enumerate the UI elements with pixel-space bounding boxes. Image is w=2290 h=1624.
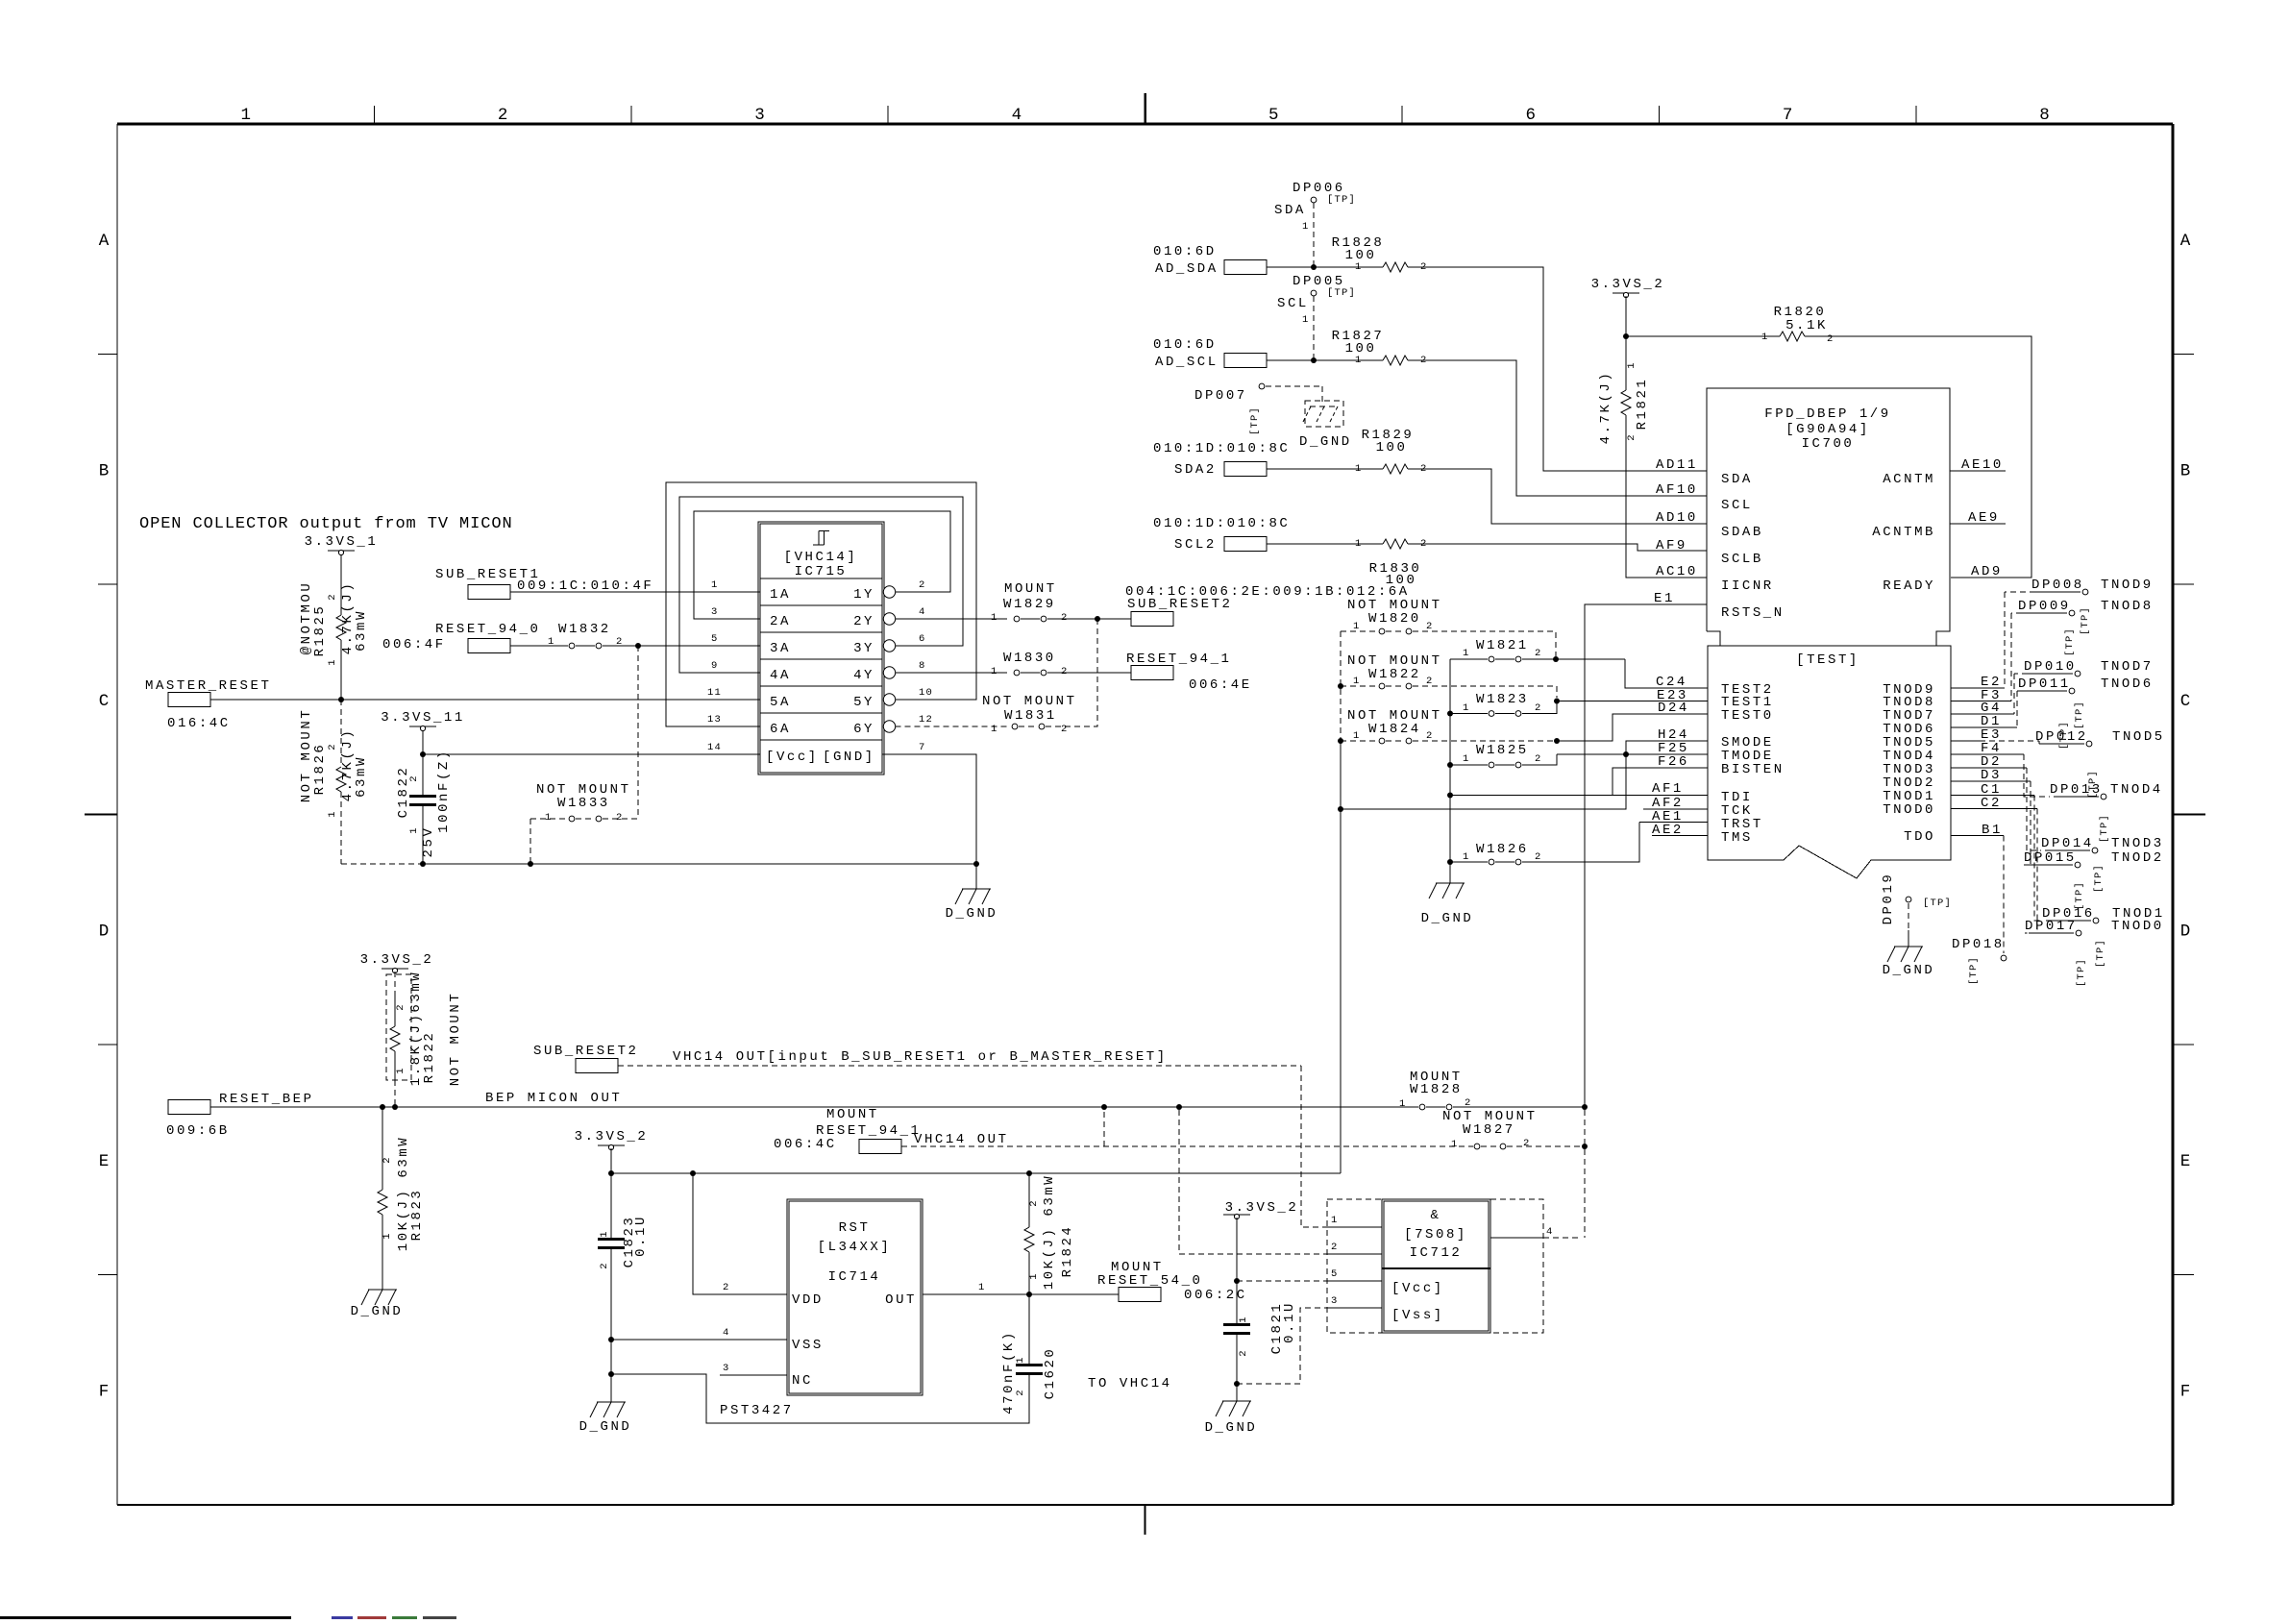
svg-text:TO VHC14: TO VHC14 [1088,1376,1172,1391]
pin stubs IC712 [1327,1226,1382,1228]
svg-text:2: 2 [1626,433,1637,441]
svg-text:FPD_DBEP 1/9: FPD_DBEP 1/9 [1764,406,1890,422]
svg-text:E: E [99,1152,110,1171]
svg-text:[TP]: [TP] [2074,881,2085,910]
svg-text:AD9: AD9 [1971,564,2003,579]
svg-text:W1830: W1830 [1003,651,1056,666]
wire RSTS dashed links [1584,1110,1586,1144]
svg-text:D_GND: D_GND [351,1304,404,1319]
svg-text:8: 8 [919,660,926,672]
svg-text:[Vcc]: [Vcc] [766,750,819,765]
power 3.3VS_2 right [1223,1214,1250,1216]
svg-text:1: 1 [1463,753,1470,765]
svg-text:3: 3 [723,1363,730,1374]
junction RSTS node [1582,1104,1588,1110]
wire W1832 to 3A [603,645,760,647]
junction AD_SDA/DP006 [1311,264,1317,270]
svg-text:MASTER_RESET: MASTER_RESET [145,678,271,694]
svg-text:W1824: W1824 [1368,722,1421,737]
junction gnd node [973,861,979,867]
svg-text:B: B [99,461,110,480]
wire TDI pin AF1 to ground bus [1450,795,1708,797]
ground D_GND jumper bus [1436,882,1465,884]
junction SMODE/TMODE node [1623,751,1629,757]
wire TMODE pin F25 [1557,753,1708,755]
svg-text:RESET_BEP: RESET_BEP [219,1092,314,1107]
svg-text:1: 1 [1463,702,1470,714]
wire SCL2 [1267,543,1383,545]
svg-text:6: 6 [1525,106,1536,125]
wire OUT to RESET_54_0 [923,1293,1119,1295]
svg-text:[L34XX]: [L34XX] [818,1240,892,1255]
svg-text:4.7K(J): 4.7K(J) [1598,371,1613,445]
wire DP013 to F4 [2024,754,2050,797]
svg-text:5: 5 [1331,1268,1339,1280]
feedback loop 3Y to 4A [679,497,963,673]
svg-text:TNOD5: TNOD5 [2112,729,2165,745]
wire TEST1 pin E23 [1557,701,1708,702]
junction C1822 bottom [420,861,426,867]
svg-text:ACNTM: ACNTM [1883,472,1935,487]
svg-text:10: 10 [919,687,933,699]
svg-text:1: 1 [1355,355,1363,366]
svg-text:5: 5 [1268,106,1279,125]
svg-text:VHC14 OUT[input B_SUB_RESET1 o: VHC14 OUT[input B_SUB_RESET1 or B_MASTER… [673,1049,1168,1065]
inverter output bubbles [883,586,895,598]
svg-text:TNOD3: TNOD3 [2111,836,2164,851]
wire 4Y to RESET_94_1 [896,672,1007,674]
svg-text:4: 4 [723,1327,730,1339]
svg-text:DP014: DP014 [2041,836,2094,851]
wire R1820 to READY/AD9 [1805,336,2031,578]
svg-text:R1822: R1822 [422,1031,437,1084]
capacitor C1823 0.1U [610,1173,612,1238]
svg-text:NC: NC [792,1373,813,1389]
svg-text:010:6D: 010:6D [1153,244,1217,259]
svg-text:100nF(Z): 100nF(Z) [436,749,452,833]
svg-text:C: C [2180,692,2191,711]
wire R1827 to IC700 SCL [1408,360,1707,496]
wire IC712 input2 dashed [1179,1110,1327,1254]
svg-text:5: 5 [711,633,719,645]
wire to D_GND right [1236,1384,1238,1401]
wire DP010 to G4 [2013,674,2015,714]
svg-text:2: 2 [1535,702,1542,714]
junction W1832/W1833 [635,643,641,649]
capacitor C1821 0.1U [1236,1281,1238,1323]
svg-text:DP017: DP017 [2025,919,2078,934]
svg-text:2: 2 [1061,612,1069,624]
svg-text:2: 2 [1426,676,1434,687]
junction W1821 output [1553,656,1559,662]
svg-text:2: 2 [1535,851,1542,863]
junction R1820/R1821 [1623,333,1629,339]
svg-text:3.3VS_2: 3.3VS_2 [575,1129,649,1144]
svg-text:006:2C: 006:2C [1184,1288,1247,1303]
svg-text:3A: 3A [770,641,791,656]
svg-text:E: E [2180,1152,2191,1171]
svg-text:&: & [1431,1208,1441,1223]
svg-text:3.3VS_2: 3.3VS_2 [1225,1200,1299,1216]
svg-text:MOUNT: MOUNT [1004,581,1057,597]
3.3V bus solid section down to supply rail [1340,741,1342,1173]
ground D_GND IC712 [1222,1400,1251,1402]
svg-text:DP009: DP009 [2018,599,2071,614]
svg-text:TNOD0: TNOD0 [2111,919,2164,934]
svg-text:AF1: AF1 [1652,781,1684,797]
svg-text:[TP]: [TP] [2080,606,2091,635]
svg-text:SUB_RESET2: SUB_RESET2 [1127,597,1233,612]
svg-text:SDAB: SDAB [1721,525,1763,540]
svg-text:RESET_54_0: RESET_54_0 [1097,1273,1203,1289]
svg-text:[GND]: [GND] [823,750,875,765]
svg-text:VSS: VSS [792,1338,824,1353]
junction IC712 in2 tap [1176,1104,1182,1110]
power 3.3VS_1 [328,550,355,552]
svg-text:IC712: IC712 [1410,1245,1463,1261]
svg-text:12: 12 [919,714,933,726]
bottom center tick [1145,1505,1146,1535]
wire DP014 to D2 [2027,768,2041,850]
svg-text:2: 2 [327,593,338,601]
svg-text:D_GND: D_GND [1883,963,1935,978]
svg-text:2: 2 [1523,1138,1531,1149]
junction AD_SCL/DP005 [1311,357,1317,363]
svg-text:2: 2 [327,743,338,750]
svg-text:[TP]: [TP] [1327,194,1356,206]
wire R1830 to IC700 SCLB [1408,544,1707,551]
svg-text:BISTEN: BISTEN [1721,762,1785,777]
junction W1824/W1825 to TEST0 [1554,738,1560,744]
svg-text:C1822: C1822 [396,766,411,819]
svg-text:R1825: R1825 [312,604,328,657]
svg-text:1: 1 [1353,676,1361,687]
junction 3.3V bus / TCK feed [1338,806,1343,812]
svg-text:AE9: AE9 [1968,510,2000,526]
svg-text:2: 2 [1238,1349,1249,1357]
svg-text:IC700: IC700 [1802,436,1855,452]
svg-text:016:4C: 016:4C [167,716,231,731]
resistor R1824 10K(J) [1028,1173,1030,1227]
wire DP016 to C1 [2034,796,2042,922]
svg-text:SDA: SDA [1274,203,1306,218]
svg-text:TDO: TDO [1904,829,1935,845]
wire TNOD4 pin F4 [1951,753,2024,755]
wire 3.3V supply rail [611,1172,1341,1174]
svg-text:2: 2 [723,1282,730,1293]
svg-text:10K(J) 63mW: 10K(J) 63mW [1042,1174,1057,1290]
svg-text:2Y: 2Y [853,614,874,629]
svg-text:TNOD7: TNOD7 [2101,659,2154,675]
junction C1822 top [420,751,426,757]
svg-text:1A: 1A [770,587,791,603]
wire TNOD6 pin D1 [1951,726,2017,728]
junction SUB_RESET2/W1831 [1095,616,1100,622]
svg-text:SCL: SCL [1721,498,1753,513]
svg-text:W1833: W1833 [557,796,610,811]
svg-text:1: 1 [1353,621,1361,632]
svg-text:DP015: DP015 [2024,850,2077,866]
svg-text:DP011: DP011 [2018,677,2071,692]
svg-text:2: 2 [1426,621,1434,632]
junction C1821 top [1234,1278,1240,1284]
wire DP009 to F3 [2010,613,2012,701]
svg-text:[TP]: [TP] [2074,701,2085,729]
svg-text:[7S08]: [7S08] [1404,1227,1467,1243]
svg-text:0.1U: 0.1U [1282,1301,1297,1343]
svg-text:3.3VS_1: 3.3VS_1 [305,534,379,550]
svg-text:1: 1 [1355,261,1363,273]
svg-text:5Y: 5Y [853,695,874,710]
svg-text:SDA: SDA [1721,472,1753,487]
pin NC stub [720,1374,787,1376]
capacitor C1620 470nF [1028,1294,1030,1364]
svg-text:OPEN COLLECTOR output from TV: OPEN COLLECTOR output from TV MICON [139,515,513,533]
svg-text:READY: READY [1883,578,1935,594]
wire TMS pin AE2 [1652,835,1708,837]
svg-text:7: 7 [919,742,926,753]
power 3.3VS_2 mid [598,1144,625,1146]
wire TNOD2 pin D3 [1951,780,2031,782]
svg-text:AD11: AD11 [1656,457,1698,473]
svg-text:2: 2 [1535,648,1542,659]
capacitor C1822 100nF [422,754,424,795]
svg-text:R1824: R1824 [1060,1225,1075,1278]
svg-text:[TP]: [TP] [2076,958,2087,987]
svg-text:1: 1 [327,658,338,666]
wire SUB_RESET2 dashed to IC712 pin1 [618,1065,1301,1067]
svg-text:1: 1 [1302,221,1310,233]
svg-text:1Y: 1Y [853,587,874,603]
ground D_GND DP019 [1894,946,1923,947]
svg-text:3: 3 [754,106,765,125]
svg-text:1: 1 [1331,1215,1339,1226]
svg-text:A: A [99,232,110,251]
wire TEST0 pin D24 [1557,714,1708,741]
svg-text:TNOD9: TNOD9 [2101,578,2154,593]
svg-text:1: 1 [1355,538,1363,550]
svg-text:AF9: AF9 [1656,538,1687,554]
svg-text:ACNTMB: ACNTMB [1872,525,1935,540]
wire C1620 return path [611,1374,1029,1423]
wire DP011 to D1 [2016,691,2018,727]
resistor R1823 10K(J) [382,1107,383,1190]
svg-text:AF10: AF10 [1656,482,1698,498]
wire GND pin 7 [882,754,976,864]
svg-text:D: D [99,922,110,941]
svg-text:4Y: 4Y [853,668,874,683]
svg-text:[TP]: [TP] [1249,406,1261,435]
svg-text:6: 6 [919,633,926,645]
svg-text:1: 1 [382,1232,393,1240]
junction R1822 [392,1104,398,1110]
svg-text:1: 1 [1353,730,1361,742]
wire DP015 to D3 [2024,781,2031,865]
wire SUB_RESET1 to 1A [510,591,760,593]
svg-text:470nF(K): 470nF(K) [1001,1330,1017,1415]
svg-text:SCL2: SCL2 [1174,537,1217,553]
wire TNOD9 pin E2 [1951,687,2005,689]
wire 6Y dashed [896,726,1007,727]
junction NC bypass [608,1371,614,1377]
wire TNOD7 pin G4 [1951,713,2014,715]
svg-text:010:6D: 010:6D [1153,337,1217,353]
svg-text:2: 2 [616,812,624,824]
svg-text:BEP MICON OUT: BEP MICON OUT [485,1091,622,1106]
power 3.3VS_2 top [1613,292,1639,294]
svg-text:F26: F26 [1658,754,1689,770]
ground bus for jumpers [1449,659,1451,883]
svg-text:C1620: C1620 [1043,1347,1058,1400]
svg-text:1: 1 [1238,1316,1249,1323]
pin E1 wire to RSTS_N [1585,604,1707,1107]
wire R1828 to IC700 SDA [1408,267,1707,471]
svg-text:3.3VS_2: 3.3VS_2 [360,952,434,968]
svg-text:W1827: W1827 [1463,1122,1515,1138]
op-amp IC700 TEST section box [1708,646,1951,878]
svg-text:B: B [2180,461,2191,480]
svg-text:A: A [2180,232,2191,251]
svg-text:1: 1 [1028,1272,1040,1280]
svg-text:4: 4 [919,606,926,618]
svg-text:SCL: SCL [1277,296,1309,311]
svg-text:AE10: AE10 [1961,457,2004,473]
wire to Vcc pin 5 dashed [1237,1280,1327,1282]
svg-text:1: 1 [711,579,719,591]
3.3V bus dashed section [1340,631,1342,741]
svg-text:DP007: DP007 [1194,388,1247,404]
wire TMODE pull-up to 3.3V bus [1341,754,1626,809]
svg-text:7: 7 [1783,106,1793,125]
svg-text:006:4E: 006:4E [1189,677,1252,693]
svg-text:6A: 6A [770,722,791,737]
svg-text:2: 2 [1535,753,1542,765]
svg-text:D24: D24 [1658,701,1689,716]
svg-text:PST3427: PST3427 [720,1403,794,1418]
svg-text:100: 100 [1376,440,1408,455]
wire VSS [611,1339,787,1341]
svg-text:006:4F: 006:4F [382,637,446,652]
wire TDO pin B1 [1951,835,2004,837]
inverter IC715 VHC14 box [758,522,884,775]
junction supply rail left [608,1170,614,1176]
svg-text:2: 2 [919,579,926,591]
svg-text:11: 11 [707,687,722,699]
svg-text:W1832: W1832 [558,622,611,637]
svg-text:SCLB: SCLB [1721,552,1763,567]
svg-text:TMS: TMS [1721,830,1753,846]
svg-text:F: F [2180,1382,2191,1401]
svg-text:D_GND: D_GND [579,1419,632,1435]
svg-text:[Vcc]: [Vcc] [1391,1281,1444,1296]
svg-text:IC714: IC714 [828,1269,881,1285]
svg-text:[TP]: [TP] [2093,864,2105,893]
svg-text:[TP]: [TP] [2095,939,2106,968]
wire AD_SDA [1267,266,1383,268]
wire AD_SCL [1267,359,1383,361]
svg-text:W1826: W1826 [1476,842,1529,857]
svg-text:1: 1 [1399,1098,1407,1110]
svg-text:D_GND: D_GND [1421,911,1474,926]
svg-text:W1828: W1828 [1410,1082,1463,1097]
svg-text:1: 1 [1463,851,1470,863]
svg-text:D_GND: D_GND [946,906,998,922]
svg-text:14: 14 [707,742,722,753]
svg-text:B1: B1 [1982,823,2003,838]
resistor R1825 4.7K(J) @NOTMOU [340,554,342,615]
wire 3.3VS_11 to Vcc pin 14 [423,753,760,755]
wire VDD drop [693,1173,787,1294]
svg-text:D_GND: D_GND [1299,434,1352,450]
svg-text:W1825: W1825 [1476,743,1529,758]
svg-text:1: 1 [1761,332,1769,343]
svg-text:D_GND: D_GND [1205,1420,1258,1436]
svg-text:3.3VS_11: 3.3VS_11 [381,710,465,726]
svg-text:1: 1 [1302,314,1310,326]
svg-text:9: 9 [711,660,719,672]
svg-text:[TP]: [TP] [2087,770,2099,799]
wire TEST2 pin C24 [1625,659,1708,688]
svg-text:SDA2: SDA2 [1174,462,1217,478]
transistor IC712 7S08 AND gate [1327,1199,1543,1333]
svg-text:D: D [2180,922,2191,941]
wire TNOD0 pin C2 [1951,808,2037,810]
wire DP012 to E3 [1980,740,2039,742]
svg-text:TNOD6: TNOD6 [2101,677,2154,692]
svg-text:D3: D3 [1981,768,2002,783]
svg-text:DP008: DP008 [2031,578,2084,593]
svg-text:[Vss]: [Vss] [1391,1308,1444,1323]
svg-text:E1: E1 [1654,591,1675,606]
svg-text:3: 3 [1331,1295,1339,1307]
svg-text:63mW: 63mW [354,755,369,798]
svg-text:SUB_RESET2: SUB_RESET2 [533,1044,639,1059]
svg-text:2: 2 [1061,724,1069,735]
svg-text:C: C [99,692,110,711]
svg-text:1: 1 [548,636,555,648]
feedback loop 1Y to 2A [694,511,950,619]
wire BISTEN pin F26 [1613,768,1708,796]
svg-text:4: 4 [1012,106,1022,125]
svg-text:[TEST]: [TEST] [1796,652,1859,668]
svg-text:3: 3 [711,606,719,618]
svg-text:RST: RST [839,1220,871,1236]
junction C1821 bottom [1234,1381,1240,1387]
junction W1833 gnd [528,861,533,867]
svg-text:AD_SCL: AD_SCL [1155,355,1219,370]
junction R1823 [380,1104,385,1110]
svg-text:0.1U: 0.1U [633,1215,649,1257]
svg-text:RSTS_N: RSTS_N [1721,605,1785,621]
svg-text:3.3VS_2: 3.3VS_2 [1591,277,1665,292]
svg-text:63mW: 63mW [354,609,369,652]
svg-text:TEST0: TEST0 [1721,708,1774,724]
svg-text:R1821: R1821 [1635,378,1650,431]
junction W1827/IC712 out [1582,1144,1588,1149]
svg-text:AC10: AC10 [1656,564,1698,579]
wire TRST pin AE1 [1639,822,1708,824]
svg-text:MOUNT: MOUNT [826,1107,879,1122]
svg-text:5A: 5A [770,695,791,710]
bottom page edge artifacts [0,1616,291,1619]
svg-text:W1823: W1823 [1476,692,1529,707]
svg-text:[TP]: [TP] [1923,898,1952,909]
wire DP008 to E2 [2004,592,2006,688]
svg-text:C2: C2 [1981,796,2002,811]
svg-text:[TP]: [TP] [2099,814,2110,843]
svg-text:2: 2 [1827,333,1834,345]
svg-text:006:4C: 006:4C [774,1137,837,1152]
